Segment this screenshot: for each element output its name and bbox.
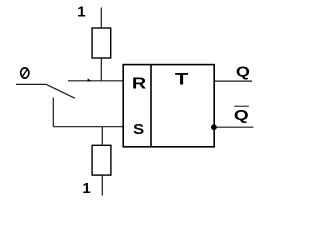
overline of Q-bar <box>234 105 249 107</box>
label output Q <box>236 63 250 80</box>
pin label R <box>132 76 147 93</box>
svg-text:T: T <box>175 70 189 89</box>
label 0 (switch input level) <box>21 68 29 78</box>
wire output Q-bar <box>217 126 254 128</box>
label 1 (value of resistor R2) <box>82 180 90 197</box>
label 1 (value of resistor R1) <box>77 4 85 21</box>
wire S input line <box>53 126 123 128</box>
pin label S <box>133 121 144 138</box>
wire R2 bottom feed <box>101 175 103 195</box>
wire switch pole feed <box>16 83 46 85</box>
label output Q-bar <box>234 107 249 124</box>
svg-text:1: 1 <box>77 4 85 21</box>
label T <box>175 70 189 89</box>
wire S line down to R2 <box>101 127 103 146</box>
wire R1 bottom to R input line <box>100 58 102 81</box>
wire top feed to R1 <box>100 8 102 29</box>
svg-text:S: S <box>133 121 144 138</box>
resistor R2 <box>92 145 111 175</box>
switch SW1 blade <box>46 84 75 98</box>
junction dot on Q-bar output <box>211 124 217 130</box>
resistor R1 <box>92 28 111 58</box>
svg-text:1: 1 <box>82 180 90 197</box>
wire R input line <box>68 80 123 82</box>
svg-text:Q: Q <box>234 107 249 124</box>
switch contact arrow on R line <box>87 78 91 81</box>
wire output Q <box>214 80 252 82</box>
svg-text:R: R <box>132 76 147 93</box>
wire S contact vertical <box>52 98 54 127</box>
flip-flop U1 divider <box>150 65 152 147</box>
svg-text:Q: Q <box>236 63 250 80</box>
flip-flop U1 body (RS trigger T) <box>123 65 214 147</box>
